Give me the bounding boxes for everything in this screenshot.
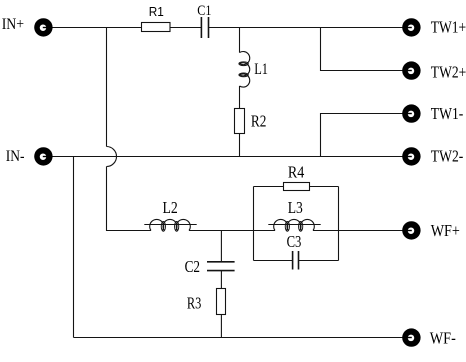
capacitor C1 plates xyxy=(200,17,202,38)
wire node to C2 xyxy=(220,231,222,262)
terminal IN+ xyxy=(34,18,52,36)
svg-text:R1: R1 xyxy=(149,4,164,19)
wire box bottom edge left of C3 xyxy=(254,260,293,262)
capacitor C2 plates xyxy=(207,261,235,263)
wire R1 to C1 xyxy=(170,27,201,29)
svg-text:WF+: WF+ xyxy=(431,221,460,240)
terminal TW1+ xyxy=(402,18,420,36)
svg-text:TW2+: TW2+ xyxy=(431,62,466,81)
wire box top edge right of R4 xyxy=(310,186,339,188)
svg-text:R2: R2 xyxy=(251,112,267,131)
wire IN- horizontal to TW2- xyxy=(43,156,411,158)
inductor L3 coil xyxy=(268,224,320,226)
wire TW1- branch xyxy=(321,114,412,157)
wire R2 to IN- line xyxy=(239,134,241,157)
resistor R3 xyxy=(217,289,226,315)
svg-text:IN+: IN+ xyxy=(2,16,24,33)
wire L2 to box left xyxy=(189,230,254,232)
svg-text:R3: R3 xyxy=(187,293,202,312)
wire top from IN+ to R1 xyxy=(43,27,141,29)
terminal TW2- xyxy=(402,147,420,165)
svg-text:C3: C3 xyxy=(287,232,302,251)
resistor R2 xyxy=(235,109,245,134)
svg-text:R4: R4 xyxy=(288,163,305,182)
wire hop over IN- line xyxy=(107,147,117,167)
capacitor C3 plates xyxy=(292,251,294,270)
wire L3 to box right xyxy=(313,230,339,232)
terminal WF- xyxy=(402,328,420,346)
wire vertical branch x=106 upper xyxy=(106,28,108,147)
wire IN- down left side xyxy=(73,157,75,338)
svg-text:TW2-: TW2- xyxy=(431,147,464,166)
svg-text:TW1-: TW1- xyxy=(431,104,464,123)
svg-text:TW1+: TW1+ xyxy=(431,18,466,37)
svg-text:C2: C2 xyxy=(185,257,200,276)
svg-text:WF-: WF- xyxy=(430,328,456,347)
resistor R1 xyxy=(142,23,171,32)
svg-text:IN-: IN- xyxy=(6,148,25,165)
wire TW2+ branch xyxy=(321,28,412,71)
inductor L1 coil xyxy=(240,52,250,65)
wire box left edge xyxy=(253,187,255,261)
wire box right edge xyxy=(338,187,340,261)
resistor R4 xyxy=(284,183,310,191)
wire L1 to R2 xyxy=(239,86,241,109)
terminal TW2+ xyxy=(402,61,420,79)
wire bottom to WF- xyxy=(74,337,412,339)
wire C2 to R3 xyxy=(220,271,222,289)
wire box left to L3 xyxy=(254,230,276,232)
wire C1 to TW1+ xyxy=(209,27,412,29)
svg-text:C1: C1 xyxy=(197,3,211,19)
svg-text:L1: L1 xyxy=(254,61,268,78)
terminal WF+ xyxy=(402,221,420,239)
wire top to L1 xyxy=(239,28,241,53)
wire R3 to bottom line xyxy=(220,315,222,338)
inductor L2 coil xyxy=(144,224,196,226)
wire box to WF+ xyxy=(339,230,412,232)
terminal IN- xyxy=(34,147,52,165)
wire vertical branch x=106 lower xyxy=(107,167,152,231)
terminal TW1- xyxy=(402,104,420,122)
wire box top edge left of R4 xyxy=(254,186,284,188)
svg-text:L2: L2 xyxy=(163,198,178,217)
svg-text:L3: L3 xyxy=(288,198,303,217)
wire box bottom edge right of C3 xyxy=(299,260,339,262)
